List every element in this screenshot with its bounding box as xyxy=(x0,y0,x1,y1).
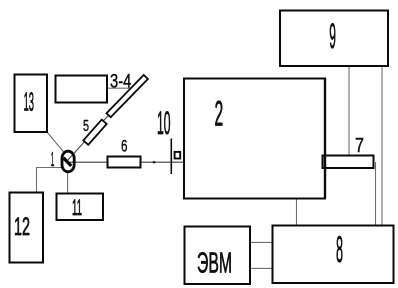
svg-text:13: 13 xyxy=(24,87,34,117)
svg-text:8: 8 xyxy=(336,229,343,270)
svg-text:6: 6 xyxy=(121,137,128,156)
svg-text:2: 2 xyxy=(215,95,224,134)
svg-text:9: 9 xyxy=(329,17,336,56)
svg-text:5: 5 xyxy=(83,118,89,135)
svg-text:10: 10 xyxy=(157,105,171,141)
svg-text:1: 1 xyxy=(51,149,55,171)
svg-text:ЭВМ: ЭВМ xyxy=(197,248,232,280)
svg-text:12: 12 xyxy=(14,214,30,241)
svg-text:11: 11 xyxy=(72,195,82,220)
svg-text:3-4: 3-4 xyxy=(110,71,132,92)
svg-text:7: 7 xyxy=(355,134,364,157)
